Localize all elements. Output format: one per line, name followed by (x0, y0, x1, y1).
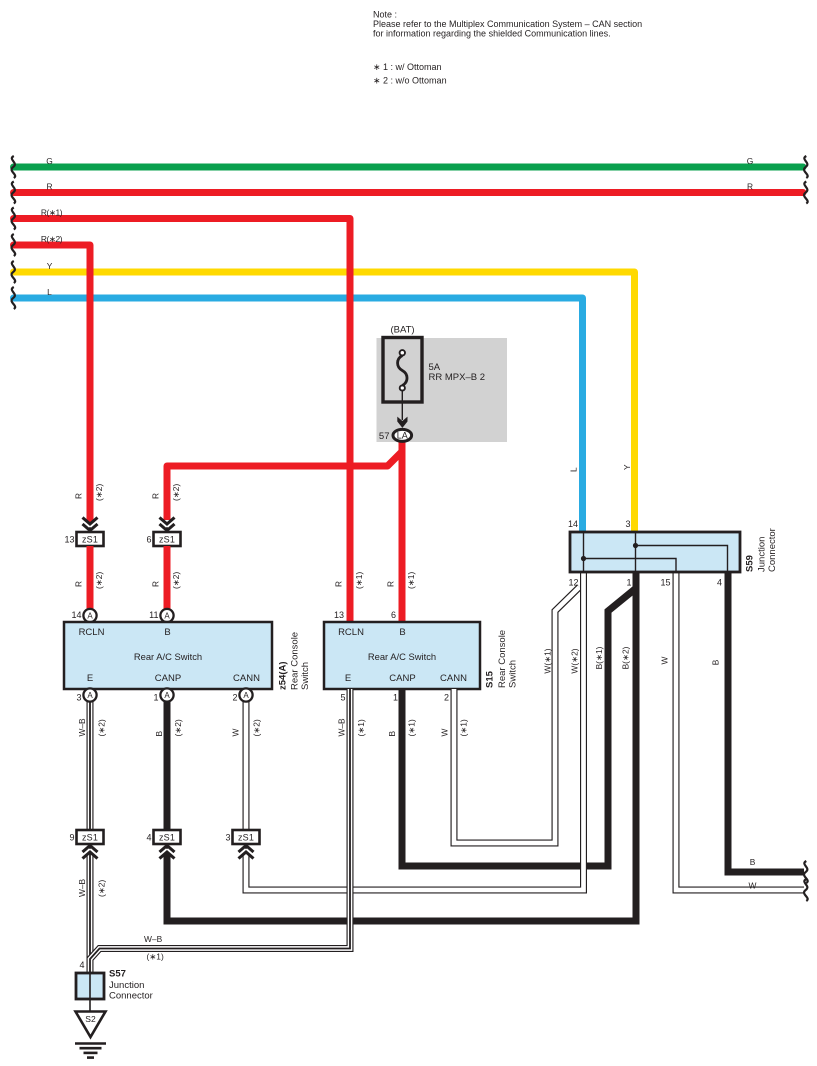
svg-text:R(∗2): R(∗2) (41, 234, 63, 244)
svg-text:S2: S2 (85, 1014, 96, 1024)
svg-text:RCLN: RCLN (338, 627, 364, 638)
break symbol B right (804, 861, 808, 883)
wire W-B(*2) zS1 9 to S57 (87, 853, 94, 973)
component S57 junction connector (76, 973, 104, 999)
label W (*2) below pin 2 (231, 719, 262, 736)
svg-text:2: 2 (444, 693, 449, 703)
svg-text:CANP: CANP (389, 673, 415, 684)
svg-text:CANN: CANN (440, 673, 467, 684)
svg-text:Switch: Switch (508, 660, 519, 688)
svg-text:Connector: Connector (109, 991, 153, 1002)
svg-text:Rear Console: Rear Console (497, 630, 508, 688)
label R (*2) above zS1 13 (74, 484, 105, 501)
connector pin 11 A (160, 609, 173, 622)
connector pin 1 A (160, 688, 173, 701)
label R (*2) below zS1 6 (151, 572, 182, 589)
wire L bus to S59 pin 14 (14, 298, 583, 532)
svg-text:12: 12 (568, 578, 578, 588)
svg-text:Switch: Switch (300, 662, 311, 690)
svg-text:S59: S59 (745, 555, 756, 572)
terminal LA ellipse (393, 429, 412, 441)
connector pin 14 A (83, 609, 96, 622)
splice zS1 9 (77, 830, 104, 844)
svg-text:14: 14 (568, 519, 578, 529)
break symbol Y left (12, 261, 16, 283)
svg-text:B: B (711, 659, 721, 665)
splice arrow into zS1 6 (160, 518, 175, 533)
wire B S59 pin 4 to right edge (728, 572, 804, 872)
label B (*2) below pin 1 (154, 719, 183, 736)
wire R branch to zS1 6 / B pin (167, 452, 402, 520)
svg-text:R: R (334, 581, 344, 587)
svg-text:(∗2): (∗2) (171, 572, 181, 589)
wire R zS1 13 to pin 14 (87, 546, 94, 610)
svg-text:R: R (46, 181, 52, 191)
svg-text:6: 6 (391, 610, 396, 620)
svg-text:B(∗2): B(∗2) (621, 646, 631, 669)
note text block (373, 9, 642, 85)
svg-text:3: 3 (76, 693, 81, 703)
break symbol R(*1) left (12, 208, 16, 230)
wire S57 to ground triangle (89, 999, 91, 1011)
wire W-B E z54(A) pin 3 to zS1 9 (87, 701, 94, 830)
svg-text:∗ 1 : w/ Ottoman: ∗ 1 : w/ Ottoman (373, 62, 442, 72)
svg-text:B(∗1): B(∗1) (594, 646, 604, 669)
svg-text:B: B (154, 731, 164, 737)
wire B(*2) lower to S59 pin 1 (167, 572, 636, 921)
svg-text:W–B: W–B (77, 718, 87, 737)
wire B CANP z54(A) pin 1 to zS1 4 (164, 701, 171, 830)
svg-text:W(∗2): W(∗2) (570, 648, 580, 673)
label R (*1) at S15 pin 6 (386, 572, 417, 589)
fuse element (398, 356, 407, 386)
label W-B (*2) above S57 (77, 878, 107, 897)
wire W CANN z54(A) pin 2 to zS1 3 (243, 701, 250, 830)
svg-text:(∗2): (∗2) (173, 719, 183, 736)
wire R(*2) bus down to splice zS1 (14, 245, 91, 520)
label W-B (*2) below pin 3 (77, 718, 107, 737)
svg-text:R: R (386, 581, 396, 587)
svg-text:(BAT): (BAT) (390, 325, 414, 336)
wire R zS1 6 to pin 11 (164, 546, 171, 610)
fuse box 5A RR MPX-B 2 (383, 338, 422, 403)
svg-text:LA: LA (397, 431, 408, 441)
svg-text:Rear A/C Switch: Rear A/C Switch (134, 651, 202, 662)
svg-text:57: 57 (379, 431, 390, 442)
splice zS1 3 (233, 830, 260, 844)
splice zS1 4 (154, 830, 181, 844)
wire W(*2) lower to S59 pin 12 (246, 572, 584, 890)
break symbol L left (12, 287, 16, 309)
wire R(*1) bus to S15 pin 13 (14, 219, 351, 625)
svg-text:(∗2): (∗2) (97, 719, 107, 736)
svg-text:14: 14 (71, 610, 81, 620)
svg-text:B: B (387, 731, 397, 737)
svg-text:W: W (231, 729, 241, 737)
svg-text:R: R (151, 581, 161, 587)
svg-text:for information regarding the: for information regarding the shielded C… (373, 29, 611, 39)
svg-text:(∗2): (∗2) (94, 572, 104, 589)
svg-text:(∗1): (∗1) (406, 572, 416, 589)
svg-text:B: B (399, 627, 405, 638)
component S59 junction connector (570, 532, 740, 572)
break symbol R left (12, 182, 16, 204)
svg-text:Rear A/C Switch: Rear A/C Switch (368, 651, 436, 662)
svg-text:E: E (345, 673, 351, 684)
svg-text:∗ 2 : w/o Ottoman: ∗ 2 : w/o Ottoman (373, 76, 447, 86)
svg-text:Y: Y (47, 261, 53, 271)
svg-text:Connector: Connector (767, 528, 778, 572)
splice arrow into zS1 13 (83, 518, 98, 533)
svg-text:Note :: Note : (373, 9, 397, 19)
svg-text:1: 1 (393, 693, 398, 703)
break symbol R(*2) left (12, 234, 16, 256)
svg-text:S57: S57 (109, 969, 126, 980)
ground symbol (75, 1044, 106, 1058)
svg-text:(∗1): (∗1) (459, 719, 469, 736)
svg-text:6: 6 (146, 535, 151, 545)
wire W-B(*1) E S15 pin 5 to S57 (90, 689, 350, 973)
svg-text:1: 1 (153, 693, 158, 703)
splice zS1 13 (77, 532, 104, 546)
svg-text:(∗2): (∗2) (252, 719, 262, 736)
svg-text:G: G (747, 156, 754, 166)
connector pin 3 A (83, 688, 96, 701)
break symbol W right (804, 879, 808, 901)
svg-text:W: W (660, 656, 670, 664)
svg-text:9: 9 (69, 833, 74, 843)
wire R from fuse LA to S15 pin 6 (399, 441, 406, 624)
svg-text:R: R (747, 181, 753, 191)
wire W(*1) CANN S15 to S59 pin 12 (454, 587, 580, 843)
svg-text:W–B: W–B (337, 718, 347, 737)
wire B(*1) CANP S15 to S59 pin 1 (402, 589, 635, 866)
svg-text:13: 13 (334, 610, 344, 620)
svg-text:4: 4 (717, 578, 722, 588)
svg-text:(∗1): (∗1) (147, 952, 164, 962)
svg-text:(∗2): (∗2) (94, 484, 104, 501)
svg-text:Rear Console: Rear Console (290, 632, 301, 690)
svg-text:R(∗1): R(∗1) (41, 207, 63, 217)
svg-text:S15: S15 (485, 670, 496, 688)
ground triangle S2 (76, 1012, 106, 1038)
svg-text:15: 15 (660, 578, 670, 588)
svg-text:Junction: Junction (757, 537, 768, 572)
svg-text:W(∗1): W(∗1) (543, 648, 553, 673)
break symbol G left (12, 156, 16, 178)
label W-B (*1) below pin 5 (337, 718, 367, 737)
svg-text:Please refer to the Multiplex: Please refer to the Multiplex Communicat… (373, 19, 642, 29)
svg-text:Y: Y (622, 464, 632, 470)
svg-text:3: 3 (625, 519, 630, 529)
svg-text:R: R (74, 581, 84, 587)
component S15 Rear A/C Switch box (324, 622, 480, 689)
svg-text:R: R (151, 493, 161, 499)
break symbol R right (804, 182, 808, 204)
svg-text:L: L (47, 287, 52, 297)
wire W S59 pin 15 to right edge (676, 572, 804, 890)
svg-text:B: B (750, 857, 756, 867)
fuse block gray background (377, 338, 508, 442)
label R (*2) below zS1 13 (74, 572, 105, 589)
svg-text:(∗2): (∗2) (171, 484, 181, 501)
wire fuse output (401, 391, 403, 420)
label W (*1) below pin 2 S15 (440, 719, 469, 736)
svg-text:CANP: CANP (155, 673, 181, 684)
svg-text:3: 3 (225, 833, 230, 843)
svg-text:(∗1): (∗1) (356, 719, 366, 736)
svg-text:4: 4 (146, 833, 151, 843)
svg-text:13: 13 (64, 535, 74, 545)
svg-text:11: 11 (149, 610, 158, 620)
svg-text:4: 4 (79, 960, 84, 970)
svg-text:L: L (569, 467, 579, 472)
svg-text:2: 2 (232, 693, 237, 703)
splice zS1 6 (154, 532, 181, 546)
svg-text:z54(A): z54(A) (278, 661, 289, 690)
svg-text:1: 1 (626, 578, 631, 588)
svg-text:W–B: W–B (144, 934, 163, 944)
label R (*1) at S15 pin 13 (334, 572, 365, 589)
svg-text:Junction: Junction (109, 980, 144, 991)
svg-text:(∗1): (∗1) (407, 719, 417, 736)
svg-text:G: G (46, 156, 53, 166)
svg-text:(∗2): (∗2) (97, 880, 107, 897)
wire R bus (14, 189, 804, 196)
svg-text:W–B: W–B (77, 878, 87, 897)
label B (*1) below pin 1 S15 (387, 719, 417, 736)
break symbol G right (804, 156, 808, 178)
arrow fuse output (397, 417, 407, 428)
svg-text:W: W (440, 729, 450, 737)
svg-text:E: E (87, 673, 93, 684)
wire G bus (14, 164, 804, 171)
svg-text:RR MPX–B 2: RR MPX–B 2 (429, 372, 486, 383)
component z54(A) Rear A/C Switch box (64, 622, 272, 689)
connector pin 2 A (239, 688, 252, 701)
svg-text:R: R (74, 493, 84, 499)
svg-text:CANN: CANN (233, 673, 260, 684)
svg-text:5: 5 (340, 693, 345, 703)
wire Y bus to S59 pin 3 (14, 272, 635, 532)
svg-text:B: B (164, 627, 170, 638)
svg-text:(∗1): (∗1) (354, 572, 364, 589)
svg-text:W: W (749, 881, 757, 891)
label R (*2) above zS1 6 (151, 484, 182, 501)
svg-text:RCLN: RCLN (79, 627, 105, 638)
